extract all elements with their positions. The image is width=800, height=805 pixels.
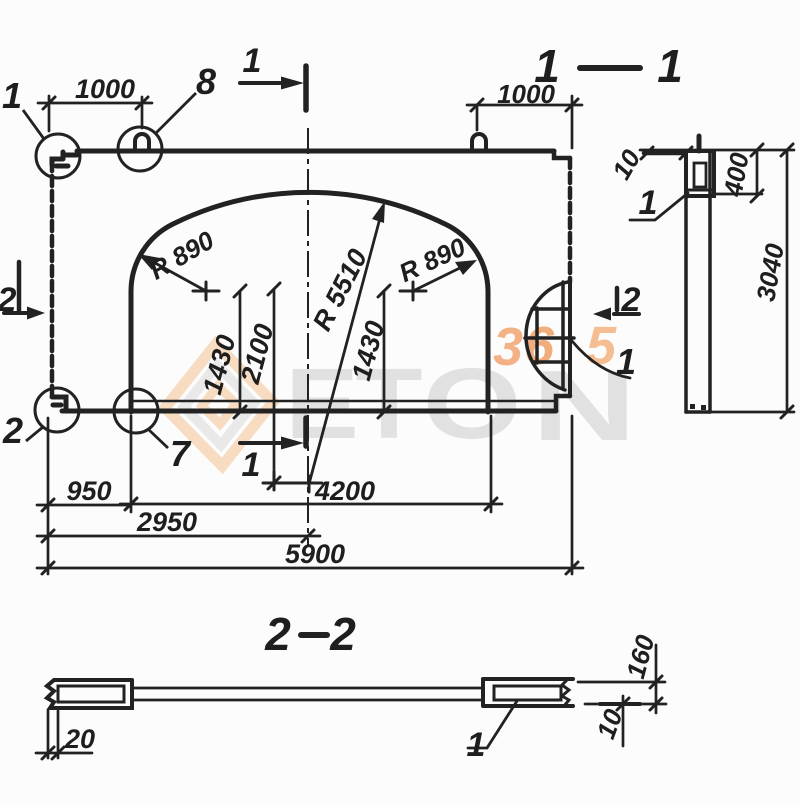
- section marker 2 left: [4, 262, 30, 313]
- svg-text:2: 2: [621, 281, 641, 319]
- svg-text:1: 1: [467, 726, 486, 764]
- svg-text:1: 1: [639, 184, 658, 222]
- svg-text:2: 2: [329, 608, 356, 660]
- R5510 radius line: [309, 207, 383, 484]
- right edge (dashed): [568, 158, 573, 282]
- dim 1000 right: line: [467, 104, 582, 107]
- 2-2 mid plate lines: [132, 688, 483, 700]
- dim 160 lines: [578, 682, 666, 704]
- svg-text:950: 950: [66, 476, 111, 506]
- lifting loop left: [135, 134, 149, 151]
- dim 1000 left: line: [38, 102, 152, 105]
- dim 10 line: [622, 696, 625, 746]
- leader for callout 2: [26, 427, 43, 441]
- section marker 1 top: [240, 66, 306, 110]
- svg-text:2950: 2950: [136, 507, 197, 537]
- watermark 365: [493, 316, 617, 377]
- callout circle 2: [35, 388, 79, 432]
- watermark ETON letters: [285, 349, 636, 462]
- bottom-left corner step: [52, 397, 66, 411]
- 1-1 leader 1: [630, 193, 688, 220]
- dim 4200 extensions: [131, 416, 491, 512]
- 1-1 dim ticks: [641, 144, 793, 418]
- R890 left arrowhead: [138, 254, 160, 270]
- dim ticks (45 deg slashes): [42, 97, 578, 574]
- opening sill line: [131, 400, 556, 403]
- callout circle 1: [36, 134, 80, 178]
- bottom-right corner step: [556, 396, 570, 410]
- R5510 center cross: [263, 472, 322, 492]
- svg-text:2: 2: [2, 410, 23, 451]
- svg-text:2: 2: [264, 608, 291, 660]
- top-left corner step: [52, 152, 77, 166]
- 2-2 right zigzag break: [562, 679, 569, 706]
- left edge (dashed): [50, 166, 55, 396]
- dim 1430 left line: [239, 291, 242, 412]
- R890 right center cross: [400, 282, 426, 300]
- R5510 arrowhead: [372, 201, 385, 223]
- leader for callout 1: [23, 110, 44, 139]
- 1-1 top dim line: [640, 149, 794, 152]
- 2-2 right block: [483, 679, 573, 706]
- svg-text:8: 8: [196, 61, 216, 102]
- bottom edge: [62, 409, 556, 414]
- section marker 1 bottom: [240, 418, 306, 446]
- 2-2 dim ticks: [42, 676, 662, 759]
- R890 right arrowhead: [455, 260, 477, 275]
- svg-text:3: 3: [493, 317, 523, 377]
- 1-1 bottom dots: [690, 404, 695, 409]
- lifting loop right: [472, 134, 486, 151]
- section marker 2 right: [614, 288, 639, 314]
- dim 1000 right: extensions: [477, 96, 572, 148]
- dim 2950 line: [37, 535, 320, 538]
- callout circle 8: [118, 127, 162, 171]
- centerline: [307, 128, 309, 545]
- svg-text:1: 1: [534, 40, 560, 92]
- leader to bracket label 1: [572, 341, 630, 378]
- watermark logo diamond rings: [162, 341, 276, 468]
- dim 3040 line: [710, 150, 794, 412]
- dim 40 thick bar: [644, 151, 684, 156]
- svg-text:1: 1: [657, 40, 683, 92]
- 2-2 left block: [36, 645, 666, 758]
- dim 1430 right line: [383, 291, 386, 412]
- svg-text:4200: 4200: [314, 476, 375, 506]
- arched opening: [131, 192, 488, 412]
- svg-text:1000: 1000: [75, 74, 135, 104]
- panel top edge: [77, 149, 554, 154]
- section 1-1 member outline: [630, 136, 794, 412]
- dim 950 line: [37, 504, 131, 507]
- callout circle 7: [114, 389, 158, 433]
- dim 2100 line: [273, 289, 276, 483]
- dim 400 line: [710, 150, 762, 196]
- svg-text:1: 1: [616, 341, 636, 382]
- dim 20: [48, 711, 58, 758]
- R890 right leader: [413, 263, 470, 291]
- svg-text:20: 20: [64, 724, 95, 754]
- 2-2 leader 1: [468, 701, 517, 748]
- svg-text:5900: 5900: [285, 539, 345, 569]
- leader for callout 8: [156, 93, 196, 133]
- svg-text:7: 7: [170, 433, 192, 474]
- dim 950/5900 left extension: [47, 418, 50, 574]
- dim 5900 line: [37, 567, 583, 570]
- dim 1000 left: extension lines: [49, 96, 142, 131]
- 1-1 top block: [686, 151, 714, 196]
- dim 4200 line: [120, 503, 502, 506]
- R890 left leader: [146, 258, 206, 291]
- leader for callout 7: [148, 429, 168, 448]
- side bracket: [526, 282, 568, 390]
- top-right corner step: [554, 151, 570, 158]
- R890 left center cross: [146, 207, 470, 492]
- svg-text:1: 1: [243, 42, 262, 80]
- svg-text:2: 2: [0, 281, 17, 319]
- svg-text:1: 1: [242, 446, 261, 484]
- svg-text:1: 1: [2, 75, 22, 116]
- dim 5900 right extension: [571, 416, 574, 574]
- 1-1 loop end: [697, 136, 702, 151]
